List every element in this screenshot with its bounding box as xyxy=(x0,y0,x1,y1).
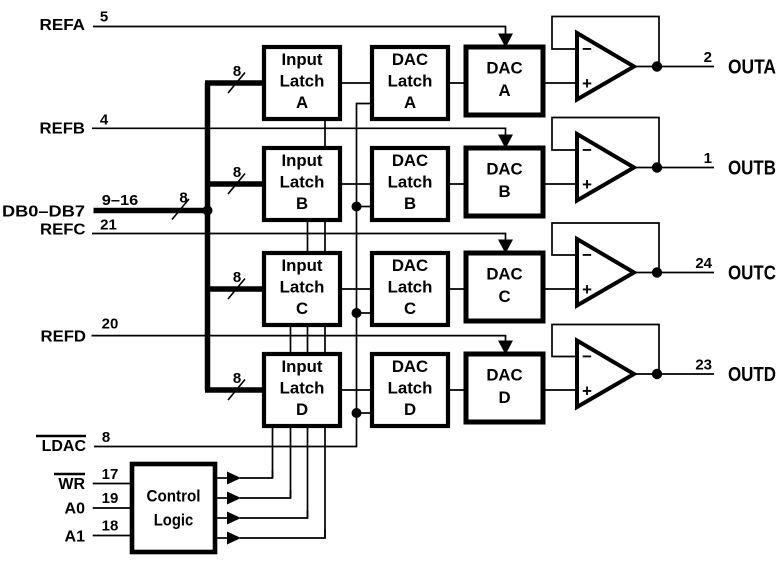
svg-text:REFD: REFD xyxy=(41,329,87,346)
wire control out 4 (to Input Latch A) xyxy=(215,530,325,545)
svg-text:OUTA: OUTA xyxy=(728,57,776,79)
bus width slash branch A xyxy=(228,73,245,94)
wire DAC Latch C to DAC C xyxy=(448,288,466,290)
svg-text:8: 8 xyxy=(233,370,241,387)
svg-text:D: D xyxy=(296,400,308,419)
svg-text:OUTD: OUTD xyxy=(728,364,776,386)
svg-text:5: 5 xyxy=(100,9,108,26)
DAC B xyxy=(466,148,543,216)
node DB0-DB7 label xyxy=(2,192,138,221)
input latch C xyxy=(264,253,340,325)
node REFA label xyxy=(40,9,109,35)
svg-text:DAC: DAC xyxy=(486,265,522,284)
input latch B xyxy=(264,148,340,220)
svg-text:Logic: Logic xyxy=(154,511,194,530)
svg-text:20: 20 xyxy=(102,316,119,333)
bus branch to Input Latch C xyxy=(205,286,264,292)
svg-text:Latch: Latch xyxy=(280,278,325,297)
svg-text:8: 8 xyxy=(102,429,110,446)
node A0 label xyxy=(65,490,132,518)
svg-text:Latch: Latch xyxy=(280,379,325,398)
svg-text:C: C xyxy=(404,299,416,318)
wire DAC Latch B to DAC B xyxy=(448,183,466,185)
wire control out 1 (to Input Latch D) xyxy=(215,470,273,485)
svg-text:1: 1 xyxy=(704,150,712,167)
svg-text:DAC: DAC xyxy=(392,151,428,170)
svg-text:Input: Input xyxy=(281,357,322,376)
svg-text:−: − xyxy=(582,347,592,366)
op-amp B xyxy=(552,118,776,201)
svg-text:8: 8 xyxy=(233,269,241,286)
svg-text:OUTC: OUTC xyxy=(728,263,776,285)
node WR label (overbar) xyxy=(54,466,132,493)
svg-text:+: + xyxy=(582,280,592,299)
wire Input Latch C to DAC Latch C xyxy=(340,288,372,290)
svg-text:D: D xyxy=(498,388,510,407)
svg-text:9–16: 9–16 xyxy=(102,192,139,209)
bus branch to Input Latch A xyxy=(205,80,264,86)
wire Input Latch B to DAC Latch B xyxy=(340,183,372,185)
svg-text:19: 19 xyxy=(102,490,119,507)
node REFD label xyxy=(41,316,119,346)
svg-text:Latch: Latch xyxy=(280,173,325,192)
node LDAC label (overbar) xyxy=(36,429,110,455)
DAC C xyxy=(466,253,543,321)
svg-text:B: B xyxy=(404,194,416,213)
DAC latch D xyxy=(372,354,448,426)
svg-text:+: + xyxy=(582,175,592,194)
svg-text:DAC: DAC xyxy=(486,366,522,385)
junction dot LDAC/D xyxy=(352,408,362,418)
svg-text:A0: A0 xyxy=(65,501,86,518)
node LDAC rail xyxy=(94,104,372,447)
svg-text:21: 21 xyxy=(100,217,117,234)
node REFB label xyxy=(40,112,109,138)
svg-text:Latch: Latch xyxy=(388,278,433,297)
input latch A xyxy=(264,47,340,119)
bus width slash branch B xyxy=(228,174,245,195)
op-amp D xyxy=(552,325,776,408)
arrowhead into DAC C xyxy=(498,240,513,254)
svg-text:WR: WR xyxy=(58,476,85,493)
DAC latch B xyxy=(372,148,448,220)
svg-text:8: 8 xyxy=(233,164,241,181)
svg-text:Input: Input xyxy=(281,151,322,170)
svg-text:A: A xyxy=(404,93,416,112)
svg-text:C: C xyxy=(296,299,308,318)
svg-text:Input: Input xyxy=(281,50,322,69)
svg-text:−: − xyxy=(582,246,592,265)
wire control out 2 (to Input Latch C) xyxy=(215,490,291,505)
svg-text:−: − xyxy=(582,141,592,160)
svg-text:2: 2 xyxy=(704,49,712,66)
svg-text:4: 4 xyxy=(100,112,109,129)
wire DAC A to op-amp A xyxy=(543,82,577,84)
svg-text:+: + xyxy=(582,382,592,401)
svg-text:B: B xyxy=(296,194,308,213)
svg-text:A: A xyxy=(498,81,510,100)
wire control enable C (vertical) xyxy=(290,325,292,498)
wire REFC line xyxy=(92,234,506,243)
svg-text:DB0–DB7: DB0–DB7 xyxy=(2,204,85,221)
bus width slash main xyxy=(172,199,189,220)
input latch D xyxy=(264,354,340,426)
svg-text:DAC: DAC xyxy=(392,50,428,69)
bus width slash branch C xyxy=(228,279,245,300)
wire LDAC stub to DAC Latch C xyxy=(357,312,373,314)
svg-text:Latch: Latch xyxy=(388,72,433,91)
svg-text:Latch: Latch xyxy=(388,379,433,398)
bus vertical trunk xyxy=(205,83,211,390)
bus branch to Input Latch B xyxy=(205,181,264,187)
svg-text:A: A xyxy=(296,93,308,112)
DAC D xyxy=(466,354,543,422)
node A1 label xyxy=(65,518,132,546)
svg-text:DAC: DAC xyxy=(486,59,522,78)
svg-text:−: − xyxy=(582,40,592,59)
wire DAC D to op-amp D xyxy=(543,389,577,391)
wire REFD line xyxy=(92,336,506,344)
svg-text:DAC: DAC xyxy=(392,256,428,275)
wire DAC Latch D to DAC D xyxy=(448,389,466,391)
svg-text:Latch: Latch xyxy=(388,173,433,192)
control logic U1 xyxy=(132,464,215,552)
svg-text:Latch: Latch xyxy=(280,72,325,91)
svg-text:8: 8 xyxy=(179,190,187,207)
svg-text:Input: Input xyxy=(281,256,322,275)
bus DB0-DB7 main horizontal xyxy=(94,208,211,214)
bus branch to Input Latch D xyxy=(205,387,264,393)
bus width slash branch D xyxy=(228,380,245,401)
junction dot bus xyxy=(203,206,213,216)
wire LDAC stub to DAC Latch B xyxy=(357,206,373,208)
arrowhead into DAC A xyxy=(498,34,513,48)
svg-text:DAC: DAC xyxy=(392,357,428,376)
wire control enable B (vertical) xyxy=(307,220,309,518)
svg-text:B: B xyxy=(498,182,510,201)
junction dot LDAC/C xyxy=(352,308,362,318)
svg-text:LDAC: LDAC xyxy=(42,438,87,455)
svg-text:DAC: DAC xyxy=(486,160,522,179)
op-amp A xyxy=(552,17,776,100)
wire Input Latch D to DAC Latch D xyxy=(340,389,372,391)
svg-text:REFA: REFA xyxy=(40,17,86,34)
arrowhead into DAC D xyxy=(498,341,513,355)
wire control enable A (vertical, passes under latch boxes) xyxy=(324,119,326,538)
svg-text:D: D xyxy=(404,400,416,419)
svg-text:17: 17 xyxy=(102,466,119,483)
wire control out 3 (to Input Latch B) xyxy=(215,510,308,525)
wire DAC C to op-amp C xyxy=(543,288,577,290)
wire REFB line xyxy=(92,128,506,137)
svg-text:+: + xyxy=(582,74,592,93)
wire control enable D (vertical) xyxy=(272,426,274,478)
svg-text:23: 23 xyxy=(695,357,712,374)
svg-text:REFB: REFB xyxy=(40,121,86,138)
svg-text:Control: Control xyxy=(147,487,201,506)
junction dot LDAC/B xyxy=(352,202,362,212)
op-amp C xyxy=(552,223,776,306)
wire REFA line xyxy=(93,27,506,37)
svg-text:OUTB: OUTB xyxy=(728,158,776,180)
wire Input Latch A to DAC Latch A xyxy=(340,82,372,84)
DAC latch A xyxy=(372,47,448,119)
wire LDAC stub to DAC Latch D xyxy=(357,412,373,414)
svg-text:24: 24 xyxy=(695,255,712,272)
wire DAC B to op-amp B xyxy=(543,183,577,185)
svg-text:REFC: REFC xyxy=(40,222,86,239)
arrowhead into DAC B xyxy=(498,135,513,149)
wire DAC Latch A to DAC A xyxy=(448,82,466,84)
node REFC label xyxy=(40,217,117,239)
svg-text:C: C xyxy=(498,287,510,306)
DAC A xyxy=(466,47,543,115)
svg-text:8: 8 xyxy=(233,63,241,80)
DAC latch C xyxy=(372,253,448,325)
svg-text:18: 18 xyxy=(102,518,119,535)
svg-text:A1: A1 xyxy=(65,529,86,546)
